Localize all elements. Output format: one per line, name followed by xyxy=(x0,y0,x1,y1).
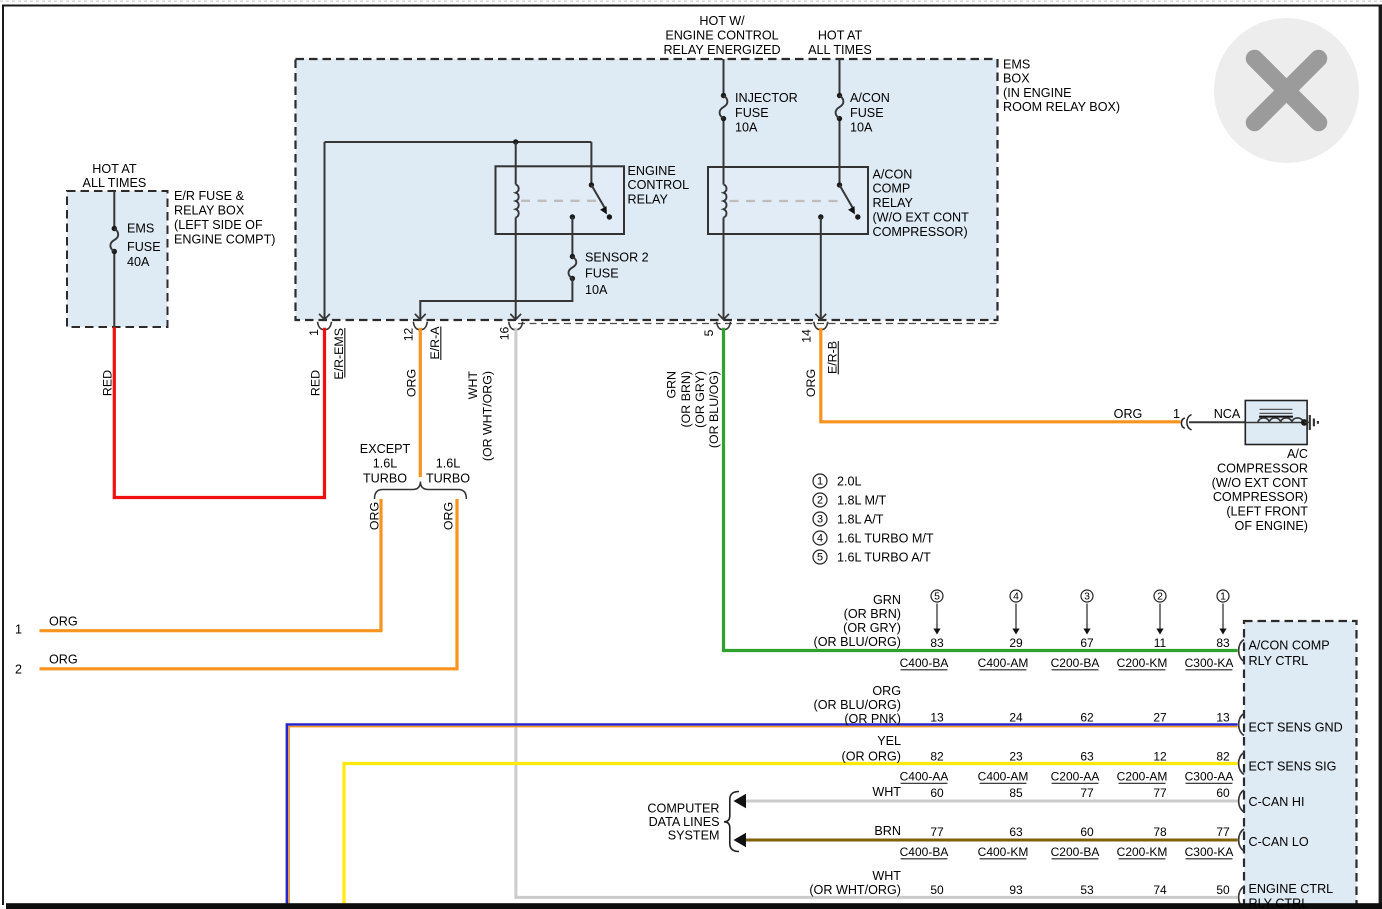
svg-text:78: 78 xyxy=(1153,825,1167,839)
svg-text:COMPRESSOR): COMPRESSOR) xyxy=(873,225,968,239)
svg-text:(OR BLU/ORG): (OR BLU/ORG) xyxy=(814,698,901,712)
svg-text:1.6L: 1.6L xyxy=(436,457,461,471)
svg-text:60: 60 xyxy=(1216,786,1230,800)
svg-text:CONTROL: CONTROL xyxy=(628,178,690,192)
svg-text:24: 24 xyxy=(1009,711,1023,725)
svg-text:ALL TIMES: ALL TIMES xyxy=(808,43,872,57)
svg-text:ENGINE CONTROL: ENGINE CONTROL xyxy=(665,28,778,42)
svg-text:C400-BA: C400-BA xyxy=(900,845,949,859)
svg-text:FUSE: FUSE xyxy=(850,106,884,120)
svg-text:1: 1 xyxy=(307,329,321,336)
svg-text:WHT: WHT xyxy=(466,371,480,400)
svg-text:EMS: EMS xyxy=(1003,58,1030,72)
svg-text:ORG: ORG xyxy=(49,615,78,629)
svg-text:77: 77 xyxy=(1080,786,1094,800)
svg-text:HOT W/: HOT W/ xyxy=(699,14,745,28)
svg-text:C200-KM: C200-KM xyxy=(1117,845,1168,859)
svg-text:2: 2 xyxy=(1157,592,1163,603)
svg-text:ORG: ORG xyxy=(49,653,78,667)
svg-text:COMPUTER: COMPUTER xyxy=(647,802,719,816)
svg-text:14: 14 xyxy=(800,329,814,343)
svg-text:SENSOR 2: SENSOR 2 xyxy=(585,250,649,264)
svg-text:RLY CTRL: RLY CTRL xyxy=(1249,654,1309,668)
svg-text:1.8L M/T: 1.8L M/T xyxy=(837,493,887,507)
svg-text:FUSE: FUSE xyxy=(735,106,769,120)
svg-text:(OR BLU/ORG): (OR BLU/ORG) xyxy=(814,635,901,649)
svg-text:EXCEPT: EXCEPT xyxy=(360,442,411,456)
svg-text:ORG: ORG xyxy=(804,369,818,397)
svg-text:16: 16 xyxy=(498,327,512,341)
svg-text:EMS: EMS xyxy=(127,222,154,236)
svg-text:ORG: ORG xyxy=(368,502,382,530)
svg-text:C200-AM: C200-AM xyxy=(1117,770,1168,784)
svg-text:ALL TIMES: ALL TIMES xyxy=(83,176,147,190)
svg-text:ENGINE: ENGINE xyxy=(628,164,676,178)
svg-text:(LEFT FRONT: (LEFT FRONT xyxy=(1226,505,1308,519)
svg-text:10A: 10A xyxy=(585,283,608,297)
svg-text:DATA LINES: DATA LINES xyxy=(649,815,720,829)
svg-text:(OR BRN): (OR BRN) xyxy=(844,607,901,621)
svg-text:29: 29 xyxy=(1009,636,1023,650)
svg-text:10A: 10A xyxy=(735,120,758,134)
svg-text:RELAY BOX: RELAY BOX xyxy=(174,204,245,218)
svg-text:ROOM RELAY BOX): ROOM RELAY BOX) xyxy=(1003,100,1120,114)
svg-text:GRN: GRN xyxy=(873,593,901,607)
svg-text:GRN: GRN xyxy=(665,371,679,399)
svg-text:1.6L TURBO A/T: 1.6L TURBO A/T xyxy=(837,550,931,564)
svg-text:TURBO: TURBO xyxy=(426,471,470,485)
svg-text:WHT: WHT xyxy=(872,869,901,883)
svg-text:63: 63 xyxy=(1080,750,1094,764)
svg-text:12: 12 xyxy=(402,328,416,342)
svg-text:RED: RED xyxy=(101,370,115,396)
svg-text:A/CON: A/CON xyxy=(873,167,913,181)
svg-text:(OR BLU/OG): (OR BLU/OG) xyxy=(707,371,721,448)
svg-text:E/R FUSE &: E/R FUSE & xyxy=(174,189,245,203)
svg-text:23: 23 xyxy=(1009,750,1023,764)
svg-text:5: 5 xyxy=(934,592,940,603)
svg-text:A/CON COMP: A/CON COMP xyxy=(1249,638,1330,652)
svg-text:82: 82 xyxy=(930,750,944,764)
svg-text:ECT SENS GND: ECT SENS GND xyxy=(1249,720,1343,734)
svg-text:FUSE: FUSE xyxy=(127,240,161,254)
svg-text:C-CAN HI: C-CAN HI xyxy=(1249,795,1305,809)
svg-text:COMPRESSOR: COMPRESSOR xyxy=(1217,461,1308,475)
svg-text:(OR BRN): (OR BRN) xyxy=(679,371,693,427)
svg-text:62: 62 xyxy=(1080,711,1094,725)
svg-text:NCA: NCA xyxy=(1214,407,1241,421)
svg-text:27: 27 xyxy=(1153,711,1167,725)
svg-text:11: 11 xyxy=(1154,636,1167,650)
svg-text:C300-KA: C300-KA xyxy=(1185,845,1234,859)
svg-text:HOT AT: HOT AT xyxy=(818,28,863,42)
svg-text:RLY CTRL: RLY CTRL xyxy=(1249,896,1309,909)
svg-text:82: 82 xyxy=(1216,750,1230,764)
svg-text:5: 5 xyxy=(817,552,823,564)
svg-text:1.6L: 1.6L xyxy=(373,457,398,471)
svg-text:ORG: ORG xyxy=(405,369,419,397)
svg-text:COMPRESSOR): COMPRESSOR) xyxy=(1213,490,1308,504)
svg-text:YEL: YEL xyxy=(877,734,901,748)
svg-text:2.0L: 2.0L xyxy=(837,474,862,488)
svg-text:1: 1 xyxy=(1173,407,1180,421)
svg-text:A/C: A/C xyxy=(1287,447,1308,461)
svg-text:ORG: ORG xyxy=(1114,407,1143,421)
svg-text:E/R-EMS: E/R-EMS xyxy=(332,328,346,380)
svg-text:13: 13 xyxy=(930,711,944,725)
svg-text:1: 1 xyxy=(1220,592,1226,603)
svg-text:10A: 10A xyxy=(850,120,873,134)
svg-text:ENGINE COMPT): ENGINE COMPT) xyxy=(174,233,275,247)
svg-text:RELAY: RELAY xyxy=(873,196,914,210)
svg-text:C400-AA: C400-AA xyxy=(900,770,949,784)
svg-text:83: 83 xyxy=(930,636,944,650)
svg-text:(OR WHT/ORG): (OR WHT/ORG) xyxy=(809,883,901,897)
svg-text:C400-AM: C400-AM xyxy=(978,656,1029,670)
svg-text:(W/O EXT CONT: (W/O EXT CONT xyxy=(873,211,970,225)
svg-text:63: 63 xyxy=(1009,825,1023,839)
svg-text:83: 83 xyxy=(1216,636,1230,650)
svg-text:(OR GRY): (OR GRY) xyxy=(843,621,901,635)
svg-text:4: 4 xyxy=(817,533,823,545)
svg-text:77: 77 xyxy=(1216,825,1230,839)
svg-text:74: 74 xyxy=(1153,883,1167,897)
svg-text:77: 77 xyxy=(1153,786,1167,800)
svg-text:A/CON: A/CON xyxy=(850,91,890,105)
svg-text:67: 67 xyxy=(1080,636,1094,650)
svg-text:TURBO: TURBO xyxy=(363,471,407,485)
svg-text:ECT SENS SIG: ECT SENS SIG xyxy=(1249,759,1337,773)
svg-text:HOT AT: HOT AT xyxy=(92,162,137,176)
svg-text:BOX: BOX xyxy=(1003,72,1030,86)
svg-text:OF ENGINE): OF ENGINE) xyxy=(1235,519,1308,533)
svg-text:C400-BA: C400-BA xyxy=(900,656,949,670)
svg-text:(LEFT SIDE OF: (LEFT SIDE OF xyxy=(174,218,263,232)
svg-text:C200-KM: C200-KM xyxy=(1117,656,1168,670)
svg-text:5: 5 xyxy=(702,329,716,336)
svg-text:2: 2 xyxy=(15,663,22,677)
svg-text:ORG: ORG xyxy=(872,684,901,698)
svg-text:(IN ENGINE: (IN ENGINE xyxy=(1003,86,1072,100)
svg-text:53: 53 xyxy=(1080,883,1094,897)
svg-text:E/R-A: E/R-A xyxy=(428,326,442,360)
svg-text:(OR PNK): (OR PNK) xyxy=(844,712,901,726)
svg-text:(W/O EXT CONT: (W/O EXT CONT xyxy=(1212,476,1309,490)
svg-text:INJECTOR: INJECTOR xyxy=(735,91,798,105)
svg-text:ORG: ORG xyxy=(442,502,456,530)
svg-text:1: 1 xyxy=(15,623,22,637)
svg-text:1: 1 xyxy=(817,476,823,488)
svg-text:RELAY: RELAY xyxy=(628,193,669,207)
svg-text:2: 2 xyxy=(817,495,823,507)
svg-text:RELAY ENERGIZED: RELAY ENERGIZED xyxy=(663,43,780,57)
svg-text:C200-AA: C200-AA xyxy=(1051,770,1100,784)
svg-text:C400-AM: C400-AM xyxy=(978,770,1029,784)
svg-text:50: 50 xyxy=(930,883,944,897)
svg-text:C200-BA: C200-BA xyxy=(1051,845,1100,859)
svg-text:60: 60 xyxy=(930,786,944,800)
svg-text:C200-BA: C200-BA xyxy=(1051,656,1100,670)
svg-text:(OR WHT/ORG): (OR WHT/ORG) xyxy=(481,371,495,461)
svg-text:FUSE: FUSE xyxy=(585,267,619,281)
svg-text:40A: 40A xyxy=(127,255,150,269)
svg-text:4: 4 xyxy=(1013,592,1019,603)
svg-text:50: 50 xyxy=(1216,883,1230,897)
svg-text:COMP: COMP xyxy=(873,182,911,196)
svg-text:85: 85 xyxy=(1009,786,1023,800)
svg-text:RED: RED xyxy=(309,370,323,396)
svg-text:BRN: BRN xyxy=(874,824,901,838)
svg-text:3: 3 xyxy=(1084,592,1090,603)
svg-text:3: 3 xyxy=(817,514,823,526)
svg-text:WHT: WHT xyxy=(872,785,901,799)
svg-text:C300-KA: C300-KA xyxy=(1185,656,1234,670)
svg-text:SYSTEM: SYSTEM xyxy=(668,829,720,843)
svg-text:1.8L A/T: 1.8L A/T xyxy=(837,512,884,526)
svg-text:12: 12 xyxy=(1153,750,1167,764)
svg-text:77: 77 xyxy=(930,825,944,839)
svg-text:60: 60 xyxy=(1080,825,1094,839)
svg-text:13: 13 xyxy=(1216,711,1230,725)
svg-text:93: 93 xyxy=(1009,883,1023,897)
svg-text:1.6L TURBO M/T: 1.6L TURBO M/T xyxy=(837,531,934,545)
svg-text:(OR ORG): (OR ORG) xyxy=(842,750,901,764)
svg-text:C400-KM: C400-KM xyxy=(978,845,1029,859)
svg-text:E/R-B: E/R-B xyxy=(826,341,840,374)
svg-text:ENGINE CTRL: ENGINE CTRL xyxy=(1249,882,1334,896)
svg-text:C300-AA: C300-AA xyxy=(1185,770,1234,784)
svg-text:C-CAN LO: C-CAN LO xyxy=(1249,835,1309,849)
svg-text:(OR GRY): (OR GRY) xyxy=(693,371,707,428)
